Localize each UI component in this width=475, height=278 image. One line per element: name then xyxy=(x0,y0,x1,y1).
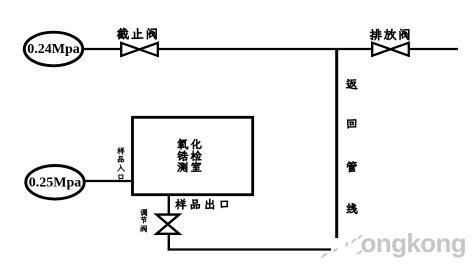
pressure gauge P1 0.24Mpa xyxy=(24,32,82,66)
label 氧化锆检测室 (3 lines inside box) xyxy=(177,139,201,173)
wire: chamber outlet down to valve V3 xyxy=(168,194,170,215)
label 样品出口 sample outlet xyxy=(175,199,228,210)
label 排放阀 for valve V2 xyxy=(370,29,410,41)
wire: valve V1 to junction node xyxy=(157,48,337,50)
chamber box 氧化锆检测室 xyxy=(133,117,253,194)
valve V3 调节阀 vertical valve xyxy=(157,215,180,234)
label 调节阀 (tiny vertical) for valve V3 xyxy=(140,209,147,232)
wire: valve V3 down xyxy=(168,233,170,251)
svg-text:0.25Mpa: 0.25Mpa xyxy=(29,176,82,191)
wire: bottom run to return line xyxy=(168,248,331,250)
wire: return line vertical from junction down xyxy=(335,48,338,238)
label 截止阀 for valve V1 xyxy=(117,28,157,40)
wire: gauge P1 to valve V1 xyxy=(83,48,122,50)
valve V1 截止阀 shut-off valve xyxy=(121,43,158,56)
wire: junction node to valve V2 xyxy=(337,48,373,50)
wire: valve V2 to right end xyxy=(408,48,458,50)
valve V2 排放阀 discharge valve xyxy=(372,43,409,56)
label 返回管线 return pipeline (vertical) xyxy=(346,79,357,214)
svg-text:0.24Mpa: 0.24Mpa xyxy=(27,42,80,57)
svg-text:ongkong: ongkong xyxy=(361,228,467,258)
watermark gongkong logo swirl fragments xyxy=(323,236,362,257)
pressure gauge P2 0.25Mpa xyxy=(26,166,84,200)
label 样品入口 sample inlet (tiny vertical) xyxy=(117,147,125,179)
wire: gauge P2 to chamber inlet xyxy=(84,180,132,182)
